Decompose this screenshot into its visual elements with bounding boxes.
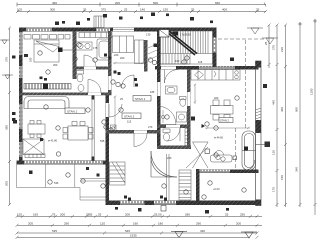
door gap H8a — [166, 125, 180, 128]
svg-text:175: 175 — [272, 187, 276, 192]
door gap H7 — [134, 130, 147, 133]
label box STAN 1 — [133, 96, 151, 102]
right wall pier mid — [256, 120, 262, 133]
svg-text:►41.80: ►41.80 — [48, 139, 58, 143]
dim lines right — [268, 19, 318, 215]
svg-text:960: 960 — [295, 107, 299, 112]
window terrace band — [200, 170, 231, 173]
door top entrance gap — [113, 28, 134, 31]
terrace corner arcs — [151, 151, 177, 177]
dim line bottom row4 — [16, 236, 259, 239]
W symbols stan2 — [216, 155, 225, 161]
wall hall bottom H7 — [106, 130, 161, 134]
hanger dark blob — [43, 84, 48, 90]
svg-text:250: 250 — [240, 212, 245, 216]
tiny area texts — [53, 46, 220, 191]
window kitchen top — [199, 66, 235, 69]
dining table — [211, 100, 234, 120]
dim line bottom row3 — [16, 232, 259, 235]
svg-text:660: 660 — [215, 1, 220, 5]
svg-text:535: 535 — [100, 139, 105, 143]
dim text bottom row4 — [130, 234, 137, 238]
wall wc2 bottom H8b — [157, 146, 191, 150]
svg-text:430: 430 — [200, 229, 205, 233]
svg-text:25: 25 — [191, 8, 195, 12]
stove hook — [214, 71, 216, 77]
svg-text:220: 220 — [167, 156, 172, 160]
svg-text:118: 118 — [198, 60, 203, 64]
svg-text:205: 205 — [28, 221, 33, 225]
svg-text:25: 25 — [98, 212, 102, 216]
svg-text:75: 75 — [52, 212, 56, 216]
svg-text:1535: 1535 — [130, 234, 137, 238]
window top bath — [96, 28, 110, 31]
left rotated dim texts — [5, 57, 9, 186]
terrace band right — [200, 170, 259, 174]
svg-text:400: 400 — [214, 96, 219, 100]
svg-text:205: 205 — [5, 181, 9, 186]
svg-text:STAN 1: STAN 1 — [135, 97, 146, 101]
svg-text:270: 270 — [148, 125, 153, 129]
svg-text:300: 300 — [53, 63, 58, 67]
dim line top row2 — [16, 10, 267, 13]
svg-text:535: 535 — [54, 181, 59, 185]
svg-text:290: 290 — [64, 221, 69, 225]
door arc living-hall — [109, 104, 122, 117]
dashed roof right — [245, 40, 247, 128]
door gap H5 bedroom — [88, 93, 101, 95]
wall bath2 bottom H8a — [157, 125, 191, 129]
door gap bath1 — [84, 67, 96, 70]
stair block right wall — [213, 28, 217, 68]
terrace edge lines — [17, 165, 106, 201]
bidet wc1 — [78, 85, 84, 92]
wall kitchen/living V9 — [187, 69, 191, 149]
svg-text:17x18/28: 17x18/28 — [180, 33, 191, 37]
partition shelf living — [92, 96, 94, 161]
svg-text:460: 460 — [280, 107, 284, 112]
label box STAN 2b — [219, 118, 233, 123]
boiler on V2 — [111, 125, 117, 132]
stair cut diagonal — [164, 29, 197, 55]
window left living2 — [19, 142, 22, 157]
svg-text:165: 165 — [33, 212, 38, 216]
door arc bath2 top — [165, 70, 179, 84]
svg-text:280: 280 — [185, 212, 190, 216]
elevation marks right — [170, 28, 278, 44]
left level markers — [0, 40, 13, 79]
door gap bath2 top — [161, 66, 176, 69]
svg-text:25,50: 25,50 — [154, 212, 162, 216]
twin washbasins — [76, 42, 92, 50]
svg-text:25: 25 — [256, 8, 260, 12]
toilet bath2 — [180, 97, 187, 100]
washbasin bath2 — [166, 86, 178, 94]
toilet wc1 — [77, 71, 84, 75]
dining table living — [28, 121, 45, 138]
dim text bottom row3 — [52, 229, 205, 233]
svg-text:STAN 2: STAN 2 — [124, 114, 135, 118]
svg-text:230: 230 — [280, 47, 284, 52]
interior dim ticks 1 — [113, 62, 250, 129]
door arc bath1 — [84, 55, 96, 67]
svg-text:185: 185 — [150, 90, 155, 94]
svg-text:275: 275 — [272, 45, 276, 50]
right wall zigzag — [256, 108, 262, 119]
door arc corridor — [122, 75, 135, 88]
svg-text:115: 115 — [127, 120, 132, 124]
wall bottom main — [106, 201, 261, 206]
window bottom 1 — [120, 201, 145, 205]
window bottom 2 — [154, 201, 176, 205]
terrace rails — [167, 154, 170, 200]
svg-text:STAN 1: STAN 1 — [67, 109, 78, 113]
svg-text:140: 140 — [140, 8, 145, 12]
door gap V7 wc — [108, 76, 111, 90]
window left living1 — [19, 104, 22, 129]
dim line bottom row1 — [16, 215, 263, 218]
svg-text:►44.60: ►44.60 — [214, 136, 224, 140]
svg-text:150: 150 — [280, 175, 284, 180]
window left bedroom — [19, 32, 22, 55]
closet A — [113, 36, 134, 53]
stair block left wall / V8 — [157, 28, 161, 150]
bathtub — [97, 39, 111, 60]
svg-text:200: 200 — [236, 221, 241, 225]
svg-text:160: 160 — [175, 59, 180, 63]
fridge circles — [235, 71, 239, 75]
svg-text:375: 375 — [101, 8, 106, 12]
dim line bottom row2 — [16, 224, 263, 227]
wall terrace left V10 — [196, 169, 200, 205]
door arc bedroom — [88, 80, 101, 93]
right wall pier top — [256, 61, 262, 68]
nightstand — [58, 48, 63, 53]
svg-text:120: 120 — [272, 150, 276, 155]
svg-text:200: 200 — [115, 1, 120, 5]
X chair — [193, 142, 209, 168]
svg-text:375: 375 — [5, 57, 9, 62]
box symbol stan2 — [205, 149, 210, 154]
wall right band — [256, 61, 262, 206]
door gap V8 bath2 — [157, 82, 160, 96]
shower bath2 — [158, 106, 177, 125]
sofa stan2 — [211, 155, 233, 162]
porch steps entrance — [94, 16, 104, 28]
coffee table with X — [23, 139, 44, 155]
label box STAN 1b — [65, 108, 85, 114]
terrace break diagonal — [186, 147, 208, 168]
dim text bottom row1 — [17, 212, 245, 216]
wall kitchen top band — [155, 66, 259, 70]
svg-text:290: 290 — [196, 221, 201, 225]
window living front — [24, 161, 103, 164]
svg-text:200: 200 — [60, 212, 65, 216]
bottom elevation triangles — [171, 232, 257, 239]
svg-text:440: 440 — [272, 100, 276, 105]
dim line top row1 — [17, 3, 266, 7]
svg-text:200: 200 — [125, 212, 130, 216]
wall living south window band — [17, 161, 107, 165]
svg-text:95: 95 — [89, 212, 93, 216]
wall bedroom/living H5 — [19, 93, 112, 96]
svg-text:390: 390 — [5, 125, 9, 130]
piano bench row — [25, 154, 45, 158]
svg-text:25: 25 — [264, 41, 268, 45]
svg-text:180: 180 — [29, 57, 33, 62]
wall top band — [19, 28, 217, 32]
svg-text:25: 25 — [225, 212, 229, 216]
svg-text:220: 220 — [114, 53, 119, 57]
shaft wall V8a — [144, 40, 148, 72]
wardrobe B — [135, 40, 144, 64]
svg-text:160: 160 — [133, 221, 138, 225]
window stair right — [213, 38, 216, 53]
dim text row1 — [52, 1, 220, 5]
right dim texts rotated — [264, 41, 314, 192]
svg-text:+0.00: +0.00 — [213, 187, 220, 191]
door arc H8a — [167, 128, 180, 141]
dim text bottom row2 — [28, 221, 241, 225]
wc2 toilet — [163, 129, 170, 133]
opening V9 — [187, 92, 190, 106]
svg-text:545: 545 — [125, 229, 130, 233]
stair arrow blob — [173, 32, 179, 36]
svg-text:180: 180 — [158, 221, 163, 225]
svg-text:25: 25 — [83, 8, 87, 12]
window left small — [19, 66, 22, 78]
level mark bedroom — [24, 54, 28, 57]
svg-text:1100: 1100 — [310, 88, 314, 95]
dining table 2 living — [63, 122, 93, 141]
svg-text:400: 400 — [222, 8, 227, 12]
door gap V2 living-hall — [106, 103, 109, 117]
washing machine — [177, 112, 187, 122]
wall left band — [19, 28, 23, 165]
closet row with hangers — [24, 84, 71, 90]
wall bedroom/bath V6 — [73, 31, 77, 79]
staircase treads — [161, 31, 213, 64]
symbol box right — [265, 142, 271, 148]
sofa — [24, 97, 69, 109]
svg-text:340: 340 — [295, 167, 299, 172]
svg-text:25: 25 — [124, 8, 128, 12]
dashed roof top-right — [218, 38, 266, 40]
svg-text:500: 500 — [153, 1, 158, 5]
shaft hatch — [148, 44, 157, 60]
right terrace tub D — [242, 131, 265, 170]
dim text row2 — [17, 8, 260, 12]
radiator under window bath1 — [79, 33, 112, 38]
kitchen counter — [191, 70, 240, 81]
svg-text:200: 200 — [120, 56, 125, 60]
meter box bottom — [161, 206, 166, 212]
wall bath/hall V7 — [108, 31, 112, 95]
dim line left — [8, 27, 11, 207]
svg-text:300: 300 — [50, 8, 55, 12]
wc2 radiator — [185, 129, 190, 146]
bed — [34, 40, 59, 62]
svg-text:105: 105 — [17, 8, 22, 12]
wall step down V2 — [106, 95, 110, 205]
chimney box — [159, 30, 169, 38]
svg-text:460: 460 — [52, 1, 57, 5]
svg-text:175: 175 — [93, 46, 98, 50]
svg-text:120: 120 — [100, 221, 105, 225]
label box STAN 2 — [122, 113, 141, 119]
door arc H7 — [134, 134, 147, 147]
exterior steps along V10 — [179, 170, 191, 200]
window top bedroom — [26, 28, 52, 31]
kitchen sink diamond — [195, 71, 204, 79]
svg-text:130: 130 — [146, 33, 151, 37]
svg-text:125: 125 — [17, 212, 22, 216]
right wall pier bottom — [256, 200, 262, 206]
stairs down treads — [110, 162, 126, 185]
svg-text:155: 155 — [163, 8, 168, 12]
svg-text:STAN 2: STAN 2 — [220, 119, 229, 123]
wall bath1 mid H — [75, 67, 112, 70]
closet row top — [24, 35, 70, 40]
level mark stan2 — [202, 124, 206, 128]
svg-text:535: 535 — [52, 229, 57, 233]
